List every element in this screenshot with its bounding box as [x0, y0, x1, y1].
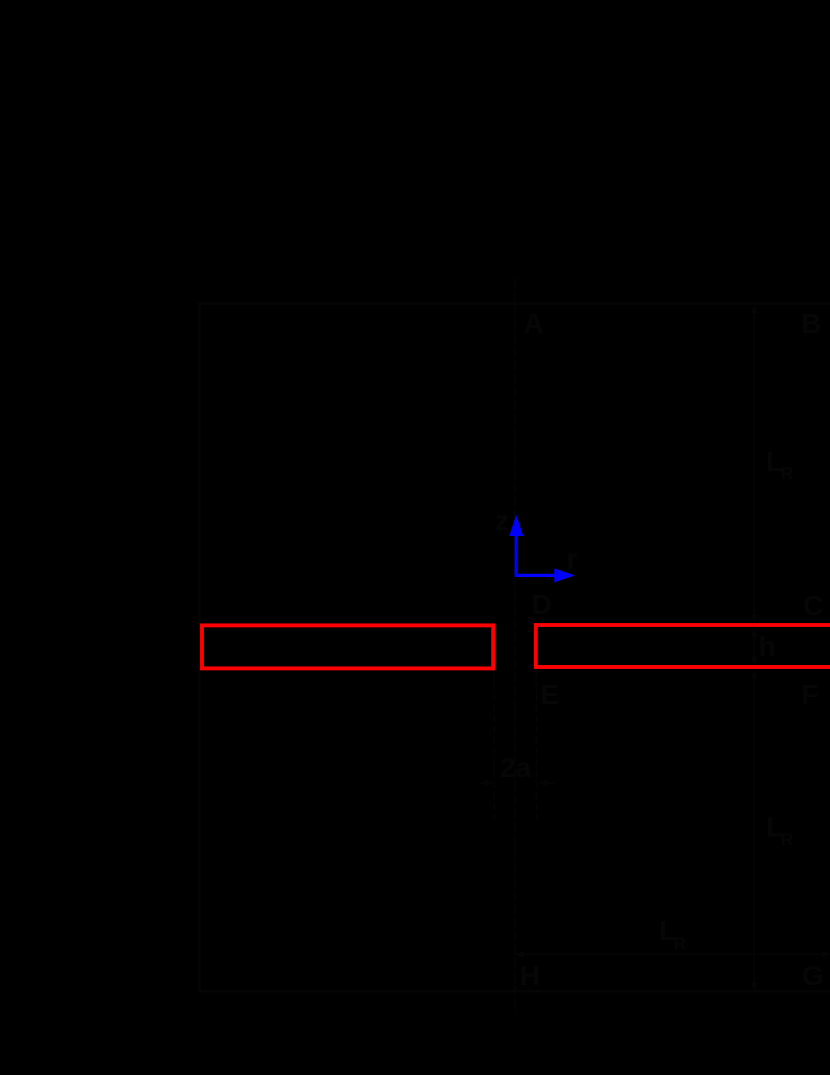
svg-text:G: G [802, 960, 824, 991]
wire top boundary line [199, 302, 830, 304]
wire blue r axis shaft [515, 574, 555, 577]
svg-text:D: D [532, 589, 552, 620]
svg-text:2a: 2a [500, 752, 532, 783]
wire dimension h segment [753, 629, 755, 664]
svg-text:A: A [524, 308, 544, 339]
wire right aperture dashed edge [535, 671, 537, 819]
wire dimension 2a right tail [540, 782, 555, 784]
svg-text:E: E [541, 679, 560, 710]
wire left boundary line [198, 303, 201, 992]
arrowhead right for 2a dimension left side [485, 779, 494, 786]
wire dimension 2a left tail [479, 782, 494, 784]
wire dimension H horizontal line [516, 953, 830, 955]
arrowhead up at top of upper L_R dimension [751, 305, 758, 313]
svg-text:C: C [803, 590, 823, 621]
node blue coordinate axes z-r [509, 515, 575, 583]
wire blue z axis shaft [515, 534, 518, 577]
arrowhead left for 2a dimension right side [539, 779, 548, 786]
wire dimension L_R upper segment [753, 306, 755, 623]
svg-text:R: R [674, 934, 686, 953]
svg-text:r: r [567, 543, 578, 574]
wire left aperture dashed edge [493, 671, 495, 819]
svg-text:h: h [759, 631, 776, 662]
arrowhead up for h dimension [751, 629, 758, 637]
svg-text:R: R [781, 464, 793, 483]
wire dimension L_R lower segment [753, 670, 755, 990]
capacitor plate left red bar [202, 625, 493, 668]
arrowhead left for H dimension [515, 951, 524, 958]
svg-text:z: z [495, 505, 509, 536]
arrowhead blue r axis [554, 568, 575, 582]
wire bottom boundary line (screen) [199, 990, 830, 992]
arrowhead right for H dimension [821, 951, 830, 958]
node central dashed axis [514, 278, 516, 1014]
arrowhead up at top of lower L_R dimension [751, 670, 758, 678]
svg-text:B: B [801, 308, 821, 339]
capacitor plate right red bar [536, 625, 830, 667]
arrowhead down for h dimension [751, 657, 758, 665]
svg-text:H: H [520, 960, 540, 991]
svg-text:R: R [781, 830, 793, 849]
svg-text:F: F [801, 679, 818, 710]
arrowhead blue z axis [509, 515, 523, 536]
arrowhead down at screen of lower L_R dimension [751, 983, 758, 991]
arrowhead down at top plate of upper L_R dimension [751, 615, 758, 623]
